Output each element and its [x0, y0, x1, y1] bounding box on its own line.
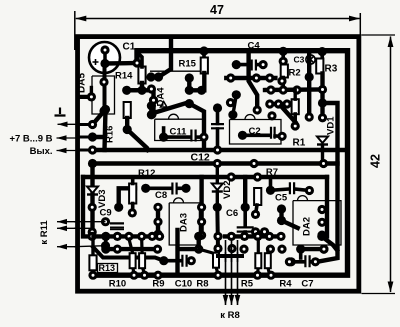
wire output lead — [57, 150, 80, 152]
pad bottom bus b — [129, 271, 138, 280]
svg-text:Вых.: Вых. — [30, 146, 53, 157]
wire to R11 c — [57, 246, 79, 248]
wire hook right — [322, 236, 337, 250]
wire from top border — [159, 40, 172, 77]
svg-text:R5: R5 — [241, 279, 254, 290]
pad c8 net left — [141, 184, 150, 193]
pad row249 i — [319, 245, 328, 254]
pad below C4 left — [232, 90, 241, 99]
wire C5 right lead — [295, 189, 309, 191]
svg-text:R13: R13 — [99, 263, 116, 273]
dimension line 47 — [76, 18, 360, 20]
wire C2 right — [275, 134, 282, 138]
pad bus middle right end — [319, 159, 328, 168]
pad row236 b — [101, 232, 110, 241]
wire join90 — [189, 88, 201, 92]
wire DA5 column — [103, 64, 107, 112]
svg-text:к R8: к R8 — [220, 310, 240, 321]
pad R2 top — [279, 57, 288, 66]
resistor R3 — [316, 59, 323, 74]
pad row236 n — [317, 232, 326, 241]
pad row249 f — [266, 245, 275, 254]
svg-text:C12: C12 — [191, 151, 210, 163]
pad row249 c — [153, 245, 162, 254]
pad R14 bottom — [137, 86, 146, 95]
pad row78 a — [226, 73, 235, 82]
wire row90 — [265, 87, 323, 92]
wires to R8 below board — [225, 252, 227, 305]
wire diag node tl — [93, 109, 106, 124]
pad kr8 b — [227, 244, 236, 253]
pad DA2 left b — [277, 216, 286, 225]
pad pair low a — [251, 227, 260, 236]
pad row78 c — [265, 73, 274, 82]
capacitor C1 (electrolytic can) — [89, 42, 120, 73]
wire supply 2 join — [93, 135, 105, 139]
wire row78 — [226, 76, 275, 80]
pad row90 a — [266, 85, 275, 94]
pad C4 left — [232, 60, 241, 69]
svg-text:VD3: VD3 — [97, 190, 108, 208]
wire DA4 pin to C11 — [189, 104, 204, 150]
resistor R15 — [201, 58, 208, 74]
pad C6 top — [241, 203, 250, 212]
wire R1 top lead — [294, 90, 297, 99]
svg-text:R7: R7 — [266, 167, 278, 178]
pad row249 d — [194, 245, 203, 254]
pad supply 2 — [88, 132, 97, 141]
dimension extension line left — [74, 11, 76, 50]
svg-text:C6: C6 — [226, 208, 238, 219]
wires k R8 through board — [225, 240, 227, 262]
pad VD2 on bus middle — [213, 159, 222, 168]
wire body b top lead — [140, 240, 144, 253]
wire lead 1 — [80, 123, 93, 126]
IC DA4 outline — [155, 119, 204, 140]
pad R6 bottom — [251, 210, 260, 219]
pad row236 g — [155, 232, 164, 241]
pad left col c — [88, 227, 97, 236]
wire R2 top lead — [281, 51, 285, 61]
pad R11 wire c — [101, 241, 110, 250]
ground symbol — [55, 108, 66, 116]
pad column b — [147, 110, 156, 119]
wire VD1 bottom lead — [321, 145, 324, 164]
wire C6 lead2 — [243, 232, 247, 236]
wire body a top lead — [129, 239, 133, 253]
capacitor C3 trimmer symbol — [306, 55, 315, 64]
resistor R12 body — [129, 184, 136, 204]
pad C1 plus — [100, 45, 109, 54]
wire lead 3 — [80, 149, 93, 152]
wire C11 right — [197, 135, 204, 139]
pad C5 right — [305, 186, 314, 195]
wire bus middle — [93, 161, 324, 165]
wire to R11 a — [57, 221, 79, 223]
pad DA5 pin 2 — [99, 106, 108, 115]
wire C7 left lead — [291, 260, 304, 264]
wire body e bottom lead — [268, 267, 270, 274]
wire C10 left lead — [164, 259, 181, 263]
wire C12 top lead — [216, 108, 220, 124]
pad row78 b — [252, 73, 261, 82]
pad C7 right — [311, 257, 320, 266]
dimension extension line top-right — [362, 34, 396, 36]
svg-text:R10: R10 — [109, 279, 126, 290]
wire R16 to bus — [127, 130, 148, 151]
resistor R1 — [292, 99, 299, 114]
wire bus lower — [83, 175, 327, 179]
pad bus lower tap — [253, 172, 262, 181]
pad row236 k — [253, 232, 262, 241]
svg-text:VD1: VD1 — [326, 116, 337, 135]
wire left column — [90, 164, 94, 237]
wire body a bottom lead — [133, 267, 134, 273]
pad DA2 r3 — [317, 231, 326, 240]
wire DA3 left col — [156, 207, 160, 234]
pad pair low b — [260, 227, 269, 236]
capacitor C4 symbol — [252, 60, 256, 71]
wire body c top lead — [199, 249, 216, 254]
pad ring tap b — [279, 47, 288, 56]
wire bus upper — [93, 148, 346, 152]
pad bus middle mid — [249, 159, 258, 168]
pad R16 bottom — [123, 125, 132, 134]
pad DA4 left a — [147, 101, 156, 110]
pad row249 a — [101, 245, 110, 254]
wire C10 right lead — [188, 259, 191, 263]
wire ground lead — [58, 123, 80, 125]
svg-text:R9: R9 — [152, 279, 164, 290]
wire C12 bottom lead — [216, 129, 220, 150]
component body b — [139, 253, 145, 268]
wire ground ring — [93, 51, 348, 276]
pad C10 right — [187, 256, 196, 265]
pad near C7 — [285, 257, 294, 266]
pad row249 e — [239, 245, 248, 254]
wire DA3 to bottom bus — [175, 230, 179, 275]
resistor R6 body — [254, 188, 261, 205]
wire cross link — [218, 254, 242, 258]
pad DA3 l3 — [153, 230, 162, 239]
component body e — [265, 253, 271, 268]
pad VD3 bottom — [88, 203, 97, 212]
svg-text:C3: C3 — [294, 55, 305, 65]
wire C5 left up — [269, 177, 273, 190]
diode VD1 symbol — [317, 137, 328, 144]
wire DA2 right col — [325, 177, 329, 236]
polarity plus of C1 — [93, 59, 99, 65]
wire R12 bottom lead — [131, 204, 135, 213]
pad C7 left — [287, 257, 296, 266]
resistor R13 body — [89, 255, 96, 270]
wire right inner trace — [317, 103, 338, 262]
pad C2 left — [238, 131, 247, 140]
IC DA2 outline — [293, 201, 341, 245]
wire DA4 top — [187, 78, 191, 90]
wire inner to bus middle — [324, 161, 338, 165]
wire row249 b — [180, 247, 199, 251]
pad row249 b — [113, 245, 122, 254]
pad bottom bus d — [213, 271, 222, 280]
capacitor C7 symbol — [305, 255, 309, 267]
wire VD2 top lead — [216, 164, 219, 184]
pad DA3 r2 — [197, 217, 206, 226]
R13 outline box — [98, 264, 118, 273]
pad column a — [149, 96, 158, 105]
svg-text:R1: R1 — [293, 138, 306, 149]
wire body d bottom lead — [256, 267, 260, 274]
component body c — [213, 253, 219, 268]
svg-text:C1: C1 — [123, 42, 136, 53]
wire R11 lead a inside — [74, 221, 106, 223]
svg-text:к R11: к R11 — [39, 220, 50, 245]
wire C11 left — [164, 135, 190, 139]
wire C9 right up — [119, 188, 135, 207]
pad C4 right — [259, 60, 268, 69]
pad DA3 r1 — [197, 203, 206, 212]
dimension extension line right top — [359, 13, 361, 36]
svg-text:DA4: DA4 — [156, 87, 167, 107]
pad bus middle left — [88, 159, 97, 168]
pad R11 wire a — [101, 217, 110, 226]
pad bottom bus g — [153, 271, 162, 280]
wire C7 right lead — [311, 260, 316, 264]
wire R12 top lead — [131, 177, 135, 184]
wire R15 bottom lead — [202, 73, 206, 90]
pad hook — [319, 245, 328, 254]
pad bus upper left — [88, 145, 97, 154]
pad row102 b — [274, 99, 283, 108]
pad c4 bottom — [253, 105, 262, 114]
IC DA5 outline — [92, 76, 115, 114]
wire DA2 left — [282, 209, 298, 228]
pin1 key mark DA4 — [161, 102, 167, 108]
wire row236 left — [92, 234, 160, 238]
pad pair b — [154, 72, 163, 81]
pad c2 top left — [228, 110, 237, 119]
wire C8 right lead — [178, 187, 187, 191]
pad near c12 top — [226, 98, 235, 107]
svg-text:C5: C5 — [275, 193, 288, 204]
pad row90 b — [279, 85, 288, 94]
pad stub b — [305, 112, 314, 121]
pad DA4 pin — [185, 99, 194, 108]
svg-text:42: 42 — [369, 154, 383, 168]
pad R3 top on ring — [318, 47, 327, 56]
pad mid right — [318, 98, 327, 107]
wire row102 — [270, 102, 291, 106]
capacitor C10 symbol — [182, 255, 186, 267]
pad R2 bottom — [277, 76, 286, 85]
wire R15 top lead — [202, 51, 206, 58]
pad DA3 r3 — [197, 231, 206, 240]
pad R3 bottom — [318, 85, 327, 94]
pad row236 c — [113, 232, 122, 241]
pad row102 c — [282, 99, 291, 108]
wire R6 bottom lead — [256, 205, 258, 214]
wire C8 left lead — [146, 187, 171, 191]
wire body e top lead — [266, 250, 269, 254]
capacitor C9 symbol — [110, 223, 124, 227]
pad node tl — [101, 105, 110, 114]
pad VD1 top — [318, 113, 327, 122]
svg-text:C10: C10 — [175, 279, 192, 290]
pad C12 on bus — [213, 145, 222, 154]
pad bottom bus e — [253, 271, 262, 280]
pad vd2 net a — [213, 232, 222, 241]
pad junction under R14 — [122, 86, 131, 95]
dimension extension line bottom-right — [362, 293, 396, 295]
wire stub vertical — [307, 51, 311, 117]
pad row236 h — [194, 232, 203, 241]
pad supply 1 — [88, 120, 97, 129]
wire R14 lead — [127, 83, 142, 90]
wire C1 internal — [103, 50, 107, 64]
pad R15 bottom — [197, 86, 206, 95]
pad vd2 net b — [213, 244, 222, 253]
wire pair down — [196, 236, 200, 249]
pad row236 f — [148, 232, 157, 241]
svg-text:R15: R15 — [179, 59, 197, 70]
wire R11 lead b inside — [74, 227, 93, 229]
pad bottom bus f — [266, 271, 275, 280]
wire body b bottom lead — [142, 267, 144, 273]
wire body d top lead — [257, 239, 260, 254]
wire down c7 — [299, 249, 303, 258]
pad DA2 left a — [277, 204, 286, 213]
wire VD2 net down — [215, 207, 220, 248]
wire C11 left up — [162, 128, 166, 137]
pad node ring tap — [132, 58, 141, 67]
svg-text:C8: C8 — [155, 190, 167, 201]
svg-text:+7 В...9 В: +7 В...9 В — [9, 134, 52, 145]
pad c2 top right — [267, 111, 276, 120]
svg-text:R4: R4 — [279, 279, 292, 290]
pad row236 m — [276, 232, 285, 241]
pad DA2 r2 — [317, 218, 326, 227]
wire c4 to c2 — [233, 95, 236, 115]
wire row249 c — [301, 247, 324, 251]
wire bus to C6 — [243, 177, 247, 207]
wire C1 to ring — [105, 61, 137, 66]
pad DA4 left b — [147, 110, 156, 119]
svg-text:C9: C9 — [100, 208, 112, 219]
pad row102 a — [265, 99, 274, 108]
svg-text:R8: R8 — [196, 279, 208, 290]
wire to right column — [127, 90, 154, 114]
pad row236 i — [227, 232, 236, 241]
wire lead 2 — [80, 136, 93, 139]
wire lower-left link — [93, 247, 164, 261]
svg-text:R12: R12 — [138, 168, 155, 179]
wire R13 top lead — [91, 236, 94, 255]
wire R16 lead — [125, 118, 129, 130]
wire body c bottom lead — [216, 267, 218, 274]
capacitor C5 symbol — [290, 182, 294, 194]
component body d — [255, 253, 261, 268]
pad bus lower tap b — [227, 172, 236, 181]
pad DA3 l1 — [153, 203, 162, 212]
svg-text:DA3: DA3 — [179, 213, 190, 232]
wire row249 a — [106, 247, 158, 251]
wire DA4 left col — [149, 106, 153, 115]
pad row249 g — [277, 245, 286, 254]
wire DA5 col to bus — [105, 109, 106, 150]
pad DA4 top a — [185, 73, 194, 82]
wire R2 bottom lead — [281, 78, 285, 91]
pad R1 bottom — [291, 121, 300, 130]
wire C5 left lead — [271, 189, 290, 190]
pad C10 left — [159, 256, 168, 265]
wire to R11 b — [57, 227, 79, 229]
pad C1 minus — [100, 59, 109, 68]
pad DA4 left a0 — [147, 84, 156, 93]
pad VD2 bottom — [213, 203, 222, 212]
wire DA3 right col — [199, 177, 203, 235]
pad DA4 top b — [185, 86, 194, 95]
board outline — [78, 37, 359, 292]
wire pad pair — [151, 75, 159, 79]
pad row236 j2 — [240, 232, 249, 241]
component body a — [130, 253, 136, 268]
wire R3 top lead — [320, 52, 324, 57]
wire C2 left — [243, 134, 271, 138]
component outline line — [150, 70, 200, 72]
wire R3 to VD1 — [320, 74, 324, 118]
dimension line 42 — [390, 37, 392, 293]
svg-text:DA5: DA5 — [77, 73, 88, 93]
pad C11 left — [159, 133, 168, 142]
pad row90 c — [292, 85, 301, 94]
wire VD2 bottom lead — [216, 192, 219, 208]
pad pair a — [146, 72, 155, 81]
pad C5 left — [266, 186, 275, 195]
svg-text:R2: R2 — [289, 68, 301, 79]
capacitor C12 symbol — [211, 124, 224, 128]
pad bottom bus a — [88, 271, 97, 280]
pad row236 e — [137, 232, 146, 241]
pad DA5 pin 1 — [99, 77, 108, 86]
svg-text:R3: R3 — [325, 64, 338, 75]
wire diag DA4 — [151, 103, 188, 114]
diode VD2 symbol — [212, 184, 223, 191]
wire +7V lead — [57, 137, 80, 139]
pad edge a — [87, 92, 96, 101]
wire diag R1 — [281, 106, 295, 122]
capacitor C2 symbol — [271, 127, 275, 139]
pad row249 h — [296, 245, 305, 254]
IC DA3 outline — [169, 203, 199, 245]
svg-text:47: 47 — [210, 3, 224, 17]
capacitor C6 symbol — [237, 227, 254, 231]
svg-text:R14: R14 — [115, 71, 133, 82]
pad R12 bottom — [128, 208, 137, 217]
wire R1 bottom lead — [293, 114, 297, 126]
capacitor C11 symbol — [191, 130, 195, 142]
pad C2 right — [278, 132, 287, 141]
wire ground stub a — [80, 95, 92, 99]
pad row236 d — [124, 232, 133, 241]
pad C12 top — [213, 103, 222, 112]
pad row236 l — [265, 232, 274, 241]
pad C8 right — [181, 184, 190, 193]
wire R14 top to ring — [137, 52, 142, 67]
pad DA3 l2 — [153, 217, 162, 226]
pad bottom bus c — [140, 271, 149, 280]
pad C9 right — [114, 203, 123, 212]
diode VD3 symbol — [87, 187, 98, 194]
